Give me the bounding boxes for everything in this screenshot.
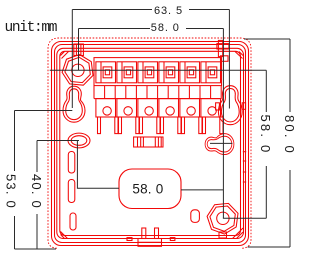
svg-text:58. 0: 58. 0 <box>132 182 163 197</box>
svg-text:63. 5: 63. 5 <box>154 5 183 17</box>
svg-text:40. 0: 40. 0 <box>29 174 44 209</box>
svg-text:58. 0: 58. 0 <box>151 22 180 34</box>
svg-text:80. 0: 80. 0 <box>282 115 297 155</box>
svg-text:53. 0: 53. 0 <box>4 174 19 209</box>
svg-text:unit:mm: unit:mm <box>5 20 58 36</box>
svg-text:58. 0: 58. 0 <box>258 115 273 155</box>
